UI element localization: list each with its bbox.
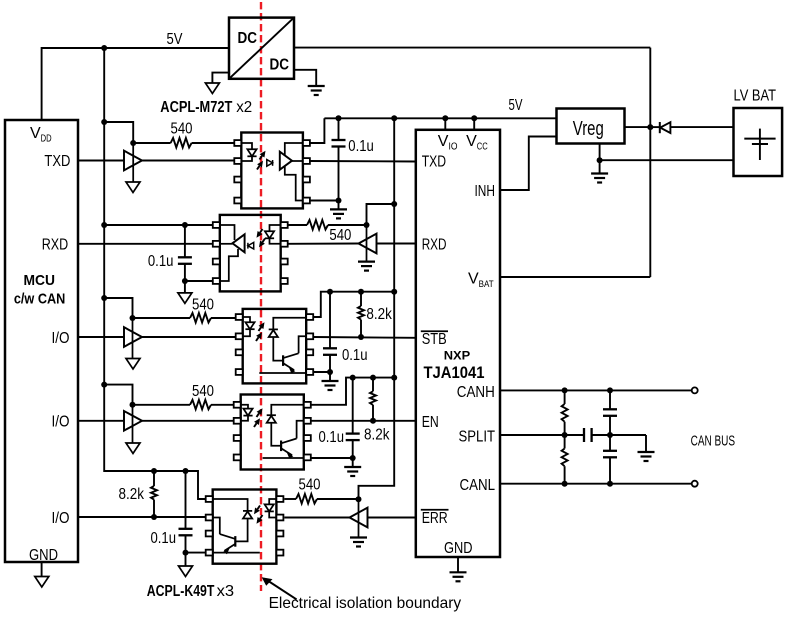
wire VBAT to rail [500, 276, 650, 278]
wire opto5 pin gnd [186, 552, 206, 554]
wire SPLIT [500, 434, 584, 436]
wire 5V1 vertical bus [104, 48, 206, 499]
node R6 to EN [370, 418, 376, 424]
wire TJA ERR to buffer [368, 517, 416, 519]
wire INH to Vreg [500, 137, 557, 191]
capacitor C1 0.1u [338, 118, 340, 140]
wire CANH [500, 389, 692, 391]
battery symbol [759, 129, 761, 160]
wire 5V2 rail top [324, 117, 556, 119]
svg-text:RXD: RXD [42, 237, 68, 254]
svg-text:540: 540 [192, 383, 214, 400]
svg-text:STB: STB [422, 331, 447, 348]
buffer U4 RXD receive [366, 225, 368, 262]
U1 output amp [280, 152, 292, 170]
ground Vreg (earth) [599, 160, 601, 173]
svg-text:8.2k: 8.2k [119, 486, 145, 503]
wire I/O2 MCU to buffer [78, 420, 124, 422]
U3 light arrows [260, 229, 263, 233]
wire CANL [500, 483, 692, 485]
wire EN to TJA1041 [311, 420, 416, 422]
svg-text:0.1u: 0.1u [342, 347, 368, 364]
ground buffer I/O2 [126, 443, 140, 454]
LV BAT block [734, 108, 783, 176]
buffer U10 ERR receive [358, 499, 360, 537]
TJA1041 block [416, 130, 500, 557]
svg-text:DC: DC [270, 57, 290, 74]
wire Vreg out to diode node [625, 126, 651, 128]
U6 light arrows [259, 327, 262, 331]
resistor R9 termination CANH [562, 387, 568, 393]
U3 internal LED [270, 225, 281, 231]
ground opto3 (earth) [329, 372, 331, 381]
svg-text:TXD: TXD [44, 153, 70, 170]
svg-text:GND: GND [444, 540, 473, 557]
svg-text:540: 540 [299, 477, 321, 494]
diode D1 [650, 126, 660, 128]
node rail3 to 5V2 [391, 289, 397, 295]
U1 detector diode [267, 160, 273, 167]
U3 output amp [232, 234, 244, 252]
wire buffer I/O1 out [142, 336, 236, 338]
svg-text:I/O: I/O [52, 414, 70, 431]
wire VCC stub [473, 118, 475, 130]
node rail3 R4 [358, 289, 364, 295]
svg-text:540: 540 [192, 297, 214, 314]
terminal CANL [692, 481, 698, 487]
resistor R8 540 [296, 494, 317, 504]
node TXD pullup [101, 119, 107, 125]
svg-text:SPLIT: SPLIT [459, 429, 496, 446]
buffer U2a TXD drive [132, 143, 134, 182]
node R2 to pullup [364, 222, 370, 228]
Vreg block [557, 109, 625, 144]
capacitor C4 0.1u [352, 378, 354, 434]
svg-text:CANH: CANH [457, 384, 495, 401]
svg-text:TJA1041: TJA1041 [424, 364, 485, 382]
svg-text:INH: INH [475, 183, 496, 200]
U6 photodiode [273, 318, 306, 330]
svg-text:0.1u: 0.1u [151, 530, 177, 547]
node cap C2 top [182, 222, 188, 228]
resistor R7 8.2k [153, 471, 155, 486]
capacitor C5 0.1u [185, 471, 187, 529]
wire opto3 Vcc to rail [313, 292, 394, 317]
wire buffer out to opto [142, 160, 234, 162]
U9 photodiode [213, 499, 248, 511]
wire opto2 pin gnd [185, 280, 213, 282]
svg-text:c/w CAN: c/w CAN [14, 291, 66, 308]
svg-text:540: 540 [329, 227, 351, 244]
node R7 to I/O3 [151, 514, 157, 520]
wire opto4 pin5 [311, 457, 353, 459]
wire TXD MCU to buffer [78, 160, 124, 162]
wire buffer RXD out [288, 243, 359, 245]
svg-text:8.2k: 8.2k [366, 306, 392, 323]
wire RXD MCU to opto2 [78, 243, 213, 245]
wire opto1 pin5 to gnd [310, 200, 339, 202]
node I/O2 pullup [101, 382, 107, 388]
svg-text:8.2k: 8.2k [364, 427, 390, 444]
svg-text:I/O: I/O [52, 330, 70, 347]
wire opto2 anode pullup [104, 224, 213, 226]
wire R2 pullup to 5V2 [367, 204, 395, 225]
wire opto3 pin5 [313, 371, 330, 373]
U8 phototransistor [280, 441, 282, 452]
optocoupler U8 ACPL-K49T (EN) [241, 395, 304, 470]
wire TXD to TJA1041 [310, 160, 416, 163]
wire R5 lead [133, 404, 191, 406]
optocoupler U6 ACPL-K49T (STB) [243, 309, 307, 384]
U8 photodiode [271, 405, 304, 415]
wire opto5 anode R lead [284, 498, 296, 500]
ground DC/DC right (earth) [308, 85, 325, 87]
resistor R6 8.2k [372, 378, 374, 392]
optocoupler U1 ACPL-M72T (TXD) [241, 133, 303, 209]
node Vreg gnd [597, 157, 603, 163]
wire DC/DC right ground [294, 70, 316, 86]
resistor R4 8.2k [360, 292, 362, 306]
ground buffer RXD (earth) [358, 261, 375, 263]
svg-text:5V: 5V [509, 97, 523, 114]
svg-text:540: 540 [171, 121, 193, 138]
capacitor C8 filter CANH [607, 387, 613, 393]
wire I/O1 pullup [104, 298, 132, 318]
svg-text:DC: DC [238, 30, 258, 47]
wire STB to TJA1041 [313, 336, 416, 339]
svg-text:I/O: I/O [52, 510, 70, 527]
wire buffer ERR out [284, 517, 349, 519]
ground SPLIT (earth) [638, 451, 655, 453]
optocoupler U3 ACPL-M72T (RXD) [220, 215, 281, 292]
node rail4 to 5V2 [391, 375, 397, 381]
wire 5V from MCU VDD to DC/DC [42, 48, 229, 120]
svg-text:LV BAT: LV BAT [734, 88, 777, 105]
wire I/O3 MCU to opto5 [78, 516, 206, 518]
svg-text:RXD: RXD [422, 237, 447, 254]
buffer U5 I/O1 [132, 318, 134, 359]
capacitor C3 0.1u [329, 292, 331, 349]
MCU block [5, 120, 78, 562]
node RXD opto supply [101, 222, 107, 228]
node battery rail [647, 124, 653, 130]
node R8 pullup [356, 496, 362, 502]
node R4 to STB [358, 334, 364, 340]
terminal CANH [692, 387, 698, 393]
svg-text:MCU: MCU [23, 272, 55, 289]
node 5V2 rail top [391, 115, 397, 121]
svg-text:Electrical isolation boundary: Electrical isolation boundary [269, 595, 462, 612]
wire TJA RXD to buffer [377, 243, 416, 245]
ground buffer I/O1 [126, 359, 140, 370]
U6 phototransistor [282, 355, 284, 366]
U9 internal LED [269, 499, 276, 504]
svg-text:Vreg: Vreg [573, 118, 604, 140]
svg-text:EN: EN [422, 414, 439, 431]
svg-text:x2: x2 [236, 99, 252, 116]
resistor R1 540 [171, 138, 192, 148]
node I/O1 pullup [101, 295, 107, 301]
node opto1 gnd [336, 198, 342, 204]
ground buffer ERR (earth) [350, 536, 367, 538]
capacitor C9 filter CANL [609, 435, 611, 451]
label electrical isolation boundary [266, 580, 297, 600]
buffer U7 I/O2 [132, 405, 134, 443]
ground opto2 (signal) [184, 281, 186, 293]
wire I/O2 pullup [104, 385, 132, 405]
TJA ground [457, 557, 459, 572]
svg-text:CANL: CANL [460, 477, 496, 494]
svg-text:ACPL-K49T: ACPL-K49T [147, 583, 215, 600]
svg-text:0.1u: 0.1u [148, 253, 174, 270]
wire buffer I/O2 out [142, 420, 234, 422]
capacitor C2 0.1u [184, 225, 186, 257]
svg-text:NXP: NXP [444, 349, 471, 363]
svg-text:0.1u: 0.1u [319, 429, 345, 446]
U1 light arrows [260, 156, 263, 160]
ground opto5 (signal) [185, 553, 187, 566]
node rail4 R6 [370, 375, 376, 381]
ground buffer TXD [126, 182, 140, 193]
DC/DC converter [229, 18, 294, 79]
U8 light arrows [257, 413, 260, 417]
node 8.2k R7 top [151, 468, 157, 474]
U9 emitter rail [213, 552, 260, 554]
resistor R3 540 [190, 313, 211, 323]
isolation boundary (red dashed) [260, 2, 262, 591]
wire opto4 Vcc to rail [311, 378, 394, 405]
U6 emitter rail [259, 372, 306, 374]
wire opto2 R lead [288, 224, 307, 226]
MCU ground [41, 562, 43, 577]
U8 internal LED [241, 405, 248, 409]
resistor R10 termination CANL [564, 435, 566, 449]
node opto4 emitter gnd [350, 455, 356, 461]
wire R3 lead [133, 317, 191, 319]
wire Vreg gnd stub [599, 144, 601, 161]
svg-text:ACPL-M72T: ACPL-M72T [160, 99, 232, 116]
svg-text:x3: x3 [217, 583, 235, 600]
svg-text:CAN BUS: CAN BUS [691, 432, 736, 449]
node rail4 cap [350, 375, 356, 381]
wire battery rail vertical [649, 48, 651, 277]
ground DC/DC left (signal) [205, 83, 219, 94]
node 5V bus tap [101, 45, 107, 51]
wire split to ground [645, 435, 647, 452]
node split mid [607, 432, 613, 438]
U3 detector diode [248, 242, 254, 249]
wire resistor R1 lead [133, 142, 170, 144]
U6 internal LED [243, 317, 250, 322]
svg-text:0.1u: 0.1u [348, 138, 374, 155]
ground opto4 (earth) [352, 458, 354, 467]
wire DC/DC left ground [212, 73, 229, 83]
svg-text:GND: GND [29, 547, 58, 564]
svg-text:ERR: ERR [422, 510, 448, 527]
node cap C5 top [183, 468, 189, 474]
U8 emitter rail [263, 457, 304, 459]
wire 5V2 vertical rail [359, 118, 395, 499]
U9 light arrows [257, 506, 260, 510]
wire VIO stub [444, 118, 446, 130]
node opto5 emitter gnd [183, 550, 189, 556]
resistor R2 540 [307, 220, 328, 230]
node opto2 cathode gnd [182, 278, 188, 284]
wire opto1 Vcc to 5V2 rail [310, 118, 325, 143]
node opto3 emitter gnd [327, 369, 333, 375]
capacitor C7 split series [583, 428, 585, 442]
wire I/O1 MCU to buffer [78, 336, 124, 338]
wire battery negative to Vreg gnd [600, 159, 734, 161]
U9 phototransistor [234, 536, 236, 547]
svg-text:5V: 5V [167, 31, 183, 48]
U1 internal LED [241, 143, 252, 149]
ground opto1 (earth) [338, 201, 340, 210]
wire DC/DC right 5V to battery rail [294, 47, 650, 49]
wire TXD pullup [104, 122, 133, 143]
resistor R5 540 [190, 400, 211, 410]
node rail3 cap [327, 289, 333, 295]
optocoupler U9 ACPL-K49T (ERR) [213, 490, 277, 564]
node cap C1 tap [336, 115, 342, 121]
svg-text:TXD: TXD [422, 153, 446, 170]
